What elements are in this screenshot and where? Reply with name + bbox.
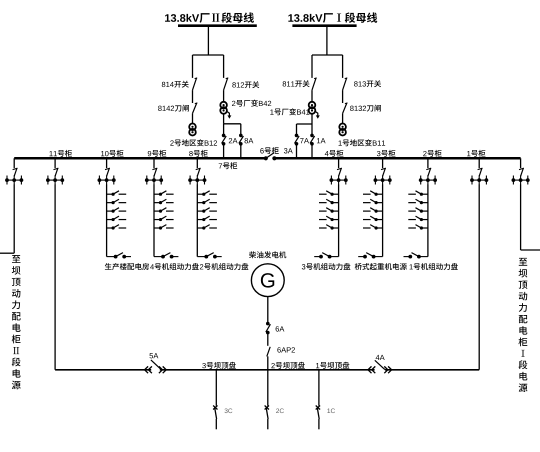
switch 4号柜 branch 5: [332, 227, 339, 229]
label 2A: [229, 138, 238, 143]
label 3号柜: [377, 150, 396, 157]
switch 2A: [222, 134, 226, 138]
wire: 8132 to B11: [342, 113, 344, 123]
switch 9号柜 branch 3: [154, 210, 161, 212]
wire: 1A drop upper: [311, 124, 313, 135]
label 1号坝顶盘: [316, 362, 349, 369]
label 1号机组动力盘: [410, 263, 458, 270]
switch 9号柜 branch 2: [154, 202, 161, 204]
bus: dam-crest distribution bus segment B: [160, 369, 375, 371]
switch 10号柜 branch 1: [107, 193, 114, 195]
switch 2号柜 branch 4: [421, 219, 428, 221]
wire: between 813 and 8132: [342, 90, 344, 103]
switch 5A drawout contacts right: [163, 366, 167, 373]
wire: 813 branch upper: [342, 55, 344, 78]
label 6AP2: [277, 347, 295, 352]
wire: 7A drop upper: [296, 124, 298, 135]
wire: 6A to 6AP2: [267, 333, 269, 346]
wire: 2A drop upper: [223, 124, 225, 136]
switch 4号柜 outgoing changeover: [330, 256, 339, 258]
label 2C: [276, 408, 284, 413]
label 1号柜: [467, 150, 485, 157]
wire: 811 to B41: [311, 90, 313, 102]
switch 3号柜 outgoing changeover: [374, 256, 383, 258]
wire: left exit feeder down: [13, 184, 15, 253]
switch 4号柜 branch 3: [332, 210, 339, 212]
bus tie switch 3A contacts: [264, 156, 268, 160]
label 柴油发电机: [249, 251, 286, 258]
switch 2号柜 branch 3: [421, 210, 428, 212]
switch 8号柜 branch 3: [197, 210, 204, 212]
label 桥式起重机电源: [355, 263, 407, 270]
switch 8号柜 branch 5: [197, 227, 204, 229]
switch 4A blade: [375, 360, 385, 369]
label 1A: [317, 138, 326, 143]
switch 4A drawout contacts left: [368, 366, 372, 373]
feeder 1号柜 breaker: [478, 158, 480, 168]
breaker 811: [314, 77, 317, 80]
feeder cabinet outgoing right edge (to dam crest I) breaker: [520, 158, 522, 168]
switch 5A drawout contacts left: [145, 366, 149, 373]
switch 2号柜 branch 2: [421, 202, 428, 204]
feeder 9号柜 breaker: [153, 158, 155, 168]
label 11号柜: [50, 150, 72, 157]
feeder 10号柜 breaker: [106, 158, 108, 168]
label 1号厂变B41: [270, 108, 309, 115]
switch 8号柜 outgoing changeover: [197, 256, 206, 258]
wire: 11号柜 feeder down to bottom bus: [54, 184, 56, 369]
wire: busbar I drop: [326, 27, 328, 55]
switch 2号柜 outgoing changeover: [419, 256, 428, 258]
wire: 4号柜 feeder trunk: [338, 184, 340, 256]
switch 3号柜 branch 1: [376, 193, 383, 195]
breaker 813: [345, 77, 348, 80]
wire: B42 LV header: [224, 123, 241, 125]
switch 10号柜 branch 4: [107, 219, 114, 221]
busbar W1 13.8kV section I: [292, 24, 356, 27]
switch 3号柜 branch 5: [376, 227, 383, 229]
wire: 2号柜 feeder trunk: [427, 184, 429, 256]
wire: 812 to B42: [223, 90, 225, 102]
transformer B41 (1号厂变): [309, 102, 316, 109]
breaker 814: [195, 77, 198, 80]
bus: main 480V bus right part: [274, 157, 520, 160]
label 2号机组动力盘: [200, 263, 248, 270]
label busbar I: 13.8kV plant section I: [288, 12, 377, 23]
label 7号柜: [219, 162, 237, 169]
wire: between 814 and 8142: [192, 90, 194, 103]
switch 9号柜 branch 1: [154, 193, 161, 195]
switch 9号柜 branch 5: [154, 227, 161, 229]
label 3C: [225, 408, 233, 413]
label 3A (bus tie): [284, 148, 293, 153]
label 4号机组动力盘: [150, 263, 199, 270]
label 2号柜: [423, 150, 441, 157]
label 812开关: [232, 81, 259, 88]
label 2号坝顶盘: [271, 362, 304, 369]
wire: right exit feeder down: [520, 184, 522, 250]
arrow: B42 LV lead: [226, 111, 229, 116]
breaker 812: [226, 77, 229, 80]
wire: section II split header: [193, 54, 224, 56]
switch 8号柜 branch 4: [197, 219, 204, 221]
wire: 8142 to B12: [192, 113, 194, 123]
switch 4号柜 branch 1: [332, 193, 339, 195]
switch 4号柜 branch 4: [332, 219, 339, 221]
label 8A: [245, 138, 254, 143]
wire: 7A to bus: [296, 144, 298, 159]
busbar W2 13.8kV section II: [178, 24, 257, 27]
label 4A: [376, 355, 385, 360]
label vertical 至坝顶动力配电柜Ⅱ段电源: [12, 255, 20, 263]
switch 6AP2 blade: [267, 347, 270, 357]
label 811开关: [283, 80, 310, 87]
generator G (diesel): [251, 264, 284, 297]
switch 4A drawout contacts right: [388, 366, 392, 373]
arrow: B41 LV lead: [315, 111, 318, 116]
label 5A: [150, 353, 159, 358]
wire: 2A to bus: [223, 144, 225, 159]
switch 2C fused disconnect: [265, 406, 269, 410]
wire: 2C drop upper: [267, 370, 269, 406]
bus: dam-crest distribution bus segment C: [385, 369, 479, 371]
label 1号地区变B11: [339, 139, 386, 146]
bus: dam-crest distribution bus segment A: [55, 369, 151, 371]
label 8132刀闸: [350, 105, 381, 112]
label vertical 至坝顶动力配电柜Ⅰ段电源: [519, 258, 527, 266]
switch 3C fused disconnect: [213, 406, 217, 410]
label 6号柜: [260, 147, 278, 154]
wire: 1C drop lower: [318, 419, 320, 429]
wire: B42 secondary down: [223, 114, 225, 124]
label 6A: [276, 326, 285, 331]
switch 3号柜 branch 4: [376, 219, 383, 221]
wire: B41 LV header: [297, 123, 313, 125]
switch 10号柜 outgoing changeover: [107, 256, 116, 258]
wire: 8号柜 feeder trunk: [196, 184, 198, 256]
switch 8A: [239, 134, 243, 138]
label busbar II: 13.8kV plant section II: [165, 12, 254, 23]
wire: generator to 6A: [267, 297, 269, 324]
switch 6A: [266, 322, 270, 326]
bus: main 480V bus left part: [14, 157, 266, 160]
label 2号厂变B42: [232, 100, 271, 107]
switch 1C fused disconnect: [316, 406, 320, 410]
wire: 8A drop upper: [240, 124, 242, 136]
transformer B12 (2号地区变): [189, 124, 196, 131]
feeder 3号柜 breaker: [382, 158, 384, 168]
switch 5A blade: [151, 360, 161, 370]
switch 10号柜 branch 3: [107, 210, 114, 212]
switch 8号柜 branch 1: [197, 193, 204, 195]
wire: 811 branch upper: [311, 55, 313, 78]
label 813开关: [354, 80, 381, 87]
bus tie blade: [266, 153, 274, 158]
switch 2号柜 branch 1: [421, 193, 428, 195]
disconnector 8132: [345, 102, 348, 105]
wire: 10号柜 feeder trunk: [106, 184, 108, 256]
wire: section I split header: [312, 54, 343, 56]
feeder 8号柜 breaker: [196, 158, 198, 168]
feeder 11号柜 breaker: [54, 158, 56, 168]
switch 1A: [310, 134, 314, 138]
switch 4号柜 branch 2: [332, 202, 339, 204]
wire: 9号柜 feeder trunk: [153, 184, 155, 256]
transformer B11 (1号地区变): [339, 124, 346, 131]
switch 9号柜 outgoing changeover: [154, 256, 163, 258]
label 8号柜: [189, 150, 208, 157]
switch 3号柜 branch 3: [376, 210, 383, 212]
label 814开关: [162, 81, 189, 88]
wire: 1A to bus: [311, 144, 313, 159]
wire: 814 branch upper: [192, 55, 194, 78]
label 生产楼配电房: [105, 263, 149, 270]
feeder 4号柜 breaker: [338, 158, 340, 168]
wire: 3C drop upper: [215, 370, 217, 406]
switch 2号柜 branch 5: [421, 227, 428, 229]
switch 9号柜 branch 4: [154, 219, 161, 221]
label 4号柜: [325, 150, 344, 157]
wire: 6AP2 to bottom bus: [267, 356, 269, 369]
wire: 3号柜 feeder trunk: [382, 184, 384, 256]
switch 3号柜 branch 2: [376, 202, 383, 204]
wire: left exit to edge: [0, 252, 14, 254]
switch 8号柜 branch 2: [197, 202, 204, 204]
feeder cabinet outgoing left edge (to dam crest II) breaker: [13, 158, 15, 168]
wire: right exit to edge: [521, 249, 540, 251]
switch 7A: [295, 134, 299, 138]
switch 10号柜 branch 2: [107, 202, 114, 204]
wire: 1号柜 feeder down to bottom bus: [478, 184, 480, 369]
wire: 2C drop lower: [267, 419, 269, 429]
label 7A: [300, 138, 309, 143]
label 10号柜: [101, 150, 123, 157]
wire: 1C drop upper: [318, 370, 320, 406]
disconnector 8142: [195, 102, 198, 105]
label 8142刀闸: [158, 105, 189, 112]
wire: 812 branch upper: [223, 55, 225, 78]
label 9号柜: [148, 150, 167, 157]
wire: 3C drop lower: [215, 419, 217, 429]
switch 10号柜 branch 5: [107, 227, 114, 229]
transformer B42 (2号厂变): [220, 102, 227, 109]
feeder 2号柜 breaker: [427, 158, 429, 168]
wire: B41 secondary down: [311, 114, 313, 124]
wire: busbar II drop: [207, 27, 209, 55]
label 2号地区变B12: [170, 139, 217, 146]
wire: 8A to bus: [240, 144, 242, 159]
label 1C: [327, 408, 335, 413]
label 3号坝顶盘: [202, 362, 236, 369]
label 3号机组动力盘: [302, 263, 351, 270]
